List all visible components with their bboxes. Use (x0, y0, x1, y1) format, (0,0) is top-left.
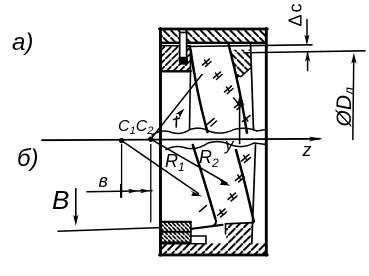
axis arrowhead (309, 137, 323, 142)
step lines right of ring (191, 236, 206, 244)
ring bearing face line (thin, upper) (187, 45, 312, 47)
ring mid line (162, 231, 191, 233)
svg-text:в: в (99, 171, 108, 191)
threaded retaining ring (dense hatch, section b) (162, 222, 191, 242)
ring right edge (190, 222, 192, 243)
svg-text:z: z (302, 140, 312, 160)
lens right surface R2 (section a) (229, 45, 247, 133)
dimension b: extension line from C1 (121, 145, 123, 198)
lens lower rim corner (section b) (213, 219, 216, 226)
optical axis z (42, 139, 320, 140)
pin outline (180, 33, 187, 62)
cell outer right wall (265, 29, 268, 256)
datum B horizontal line (58, 228, 161, 232)
bottom hatched strip (162, 243, 266, 255)
glass hatch ticks (section a) (203, 59, 251, 126)
seat top edge (section b) (226, 223, 254, 224)
ring block top line (161, 45, 191, 47)
radius leader R1 (122, 141, 199, 194)
cell outer left wall (159, 29, 162, 256)
lens right surface R2 (section b) (236, 150, 254, 222)
retaining ring left block (section a) (162, 46, 191, 71)
node C2 dot (148, 137, 153, 142)
datum B arrow (75, 189, 77, 222)
svg-text:R1: R1 (165, 151, 185, 174)
shoulder bottom edge (237, 68, 251, 77)
small arrow on leader (175, 109, 185, 118)
svg-text:C1C2: C1C2 (118, 118, 153, 137)
radius leader R2 (151, 139, 227, 183)
tick on dimension b (120, 185, 122, 198)
lens bottom rim / ring face line (section b) (192, 225, 223, 229)
svg-text:R2: R2 (199, 147, 219, 170)
cell top edge (160, 28, 268, 31)
break line, section a (152, 128, 266, 135)
svg-text:Δc: Δc (286, 1, 306, 26)
svg-text:у: у (224, 135, 235, 154)
inner bore wall (section b) (252, 145, 256, 244)
y coordinate arrow (vertical) (239, 101, 241, 144)
right shoulder hatch (cell seat, section a) (230, 50, 251, 77)
ring top border (161, 221, 191, 223)
inner bore wall (section a) (251, 43, 254, 130)
seat corner vertical (225, 224, 227, 234)
node C1 dot (119, 138, 124, 143)
seat hatch (section b) (226, 223, 253, 243)
dimension b line (87, 191, 152, 192)
svg-text:б): б) (17, 145, 39, 172)
cell bottom edge (160, 254, 268, 257)
dimension Delta-c upper arrow (306, 20, 308, 42)
glass hatch ticks (section b) (200, 155, 251, 218)
leader from C2 to upper lens surface (151, 75, 202, 140)
bottom strip top line (161, 243, 206, 245)
small tick below leader arrow (174, 117, 180, 128)
ring bottom border (162, 241, 191, 243)
lens vertex plane line (thin, lower) (244, 51, 365, 53)
svg-text:B: B (52, 185, 69, 215)
arrowhead at C2 extension (140, 189, 151, 194)
lens left surface R1 (section b) (193, 145, 216, 219)
vertical edge below ring block (section a) (190, 46, 191, 130)
arrowhead mid (128, 189, 139, 194)
dimension b: extension line from C2 (150, 145, 152, 223)
svg-text:ØDл: ØDл (333, 87, 357, 128)
svg-text:а): а) (12, 29, 33, 56)
ring block bottom line (161, 70, 191, 72)
pin (screw) white body (180, 32, 187, 62)
dimension D-lens vertical line (353, 56, 354, 140)
dimension Delta-c lower arrow (307, 53, 309, 71)
top strip bottom line (161, 42, 266, 44)
lens left surface R1 (section a) (191, 49, 208, 132)
top hatched strip (cell flange, section a) (162, 30, 266, 42)
pin dark tip (179, 57, 188, 65)
break line, section b (166, 142, 266, 150)
